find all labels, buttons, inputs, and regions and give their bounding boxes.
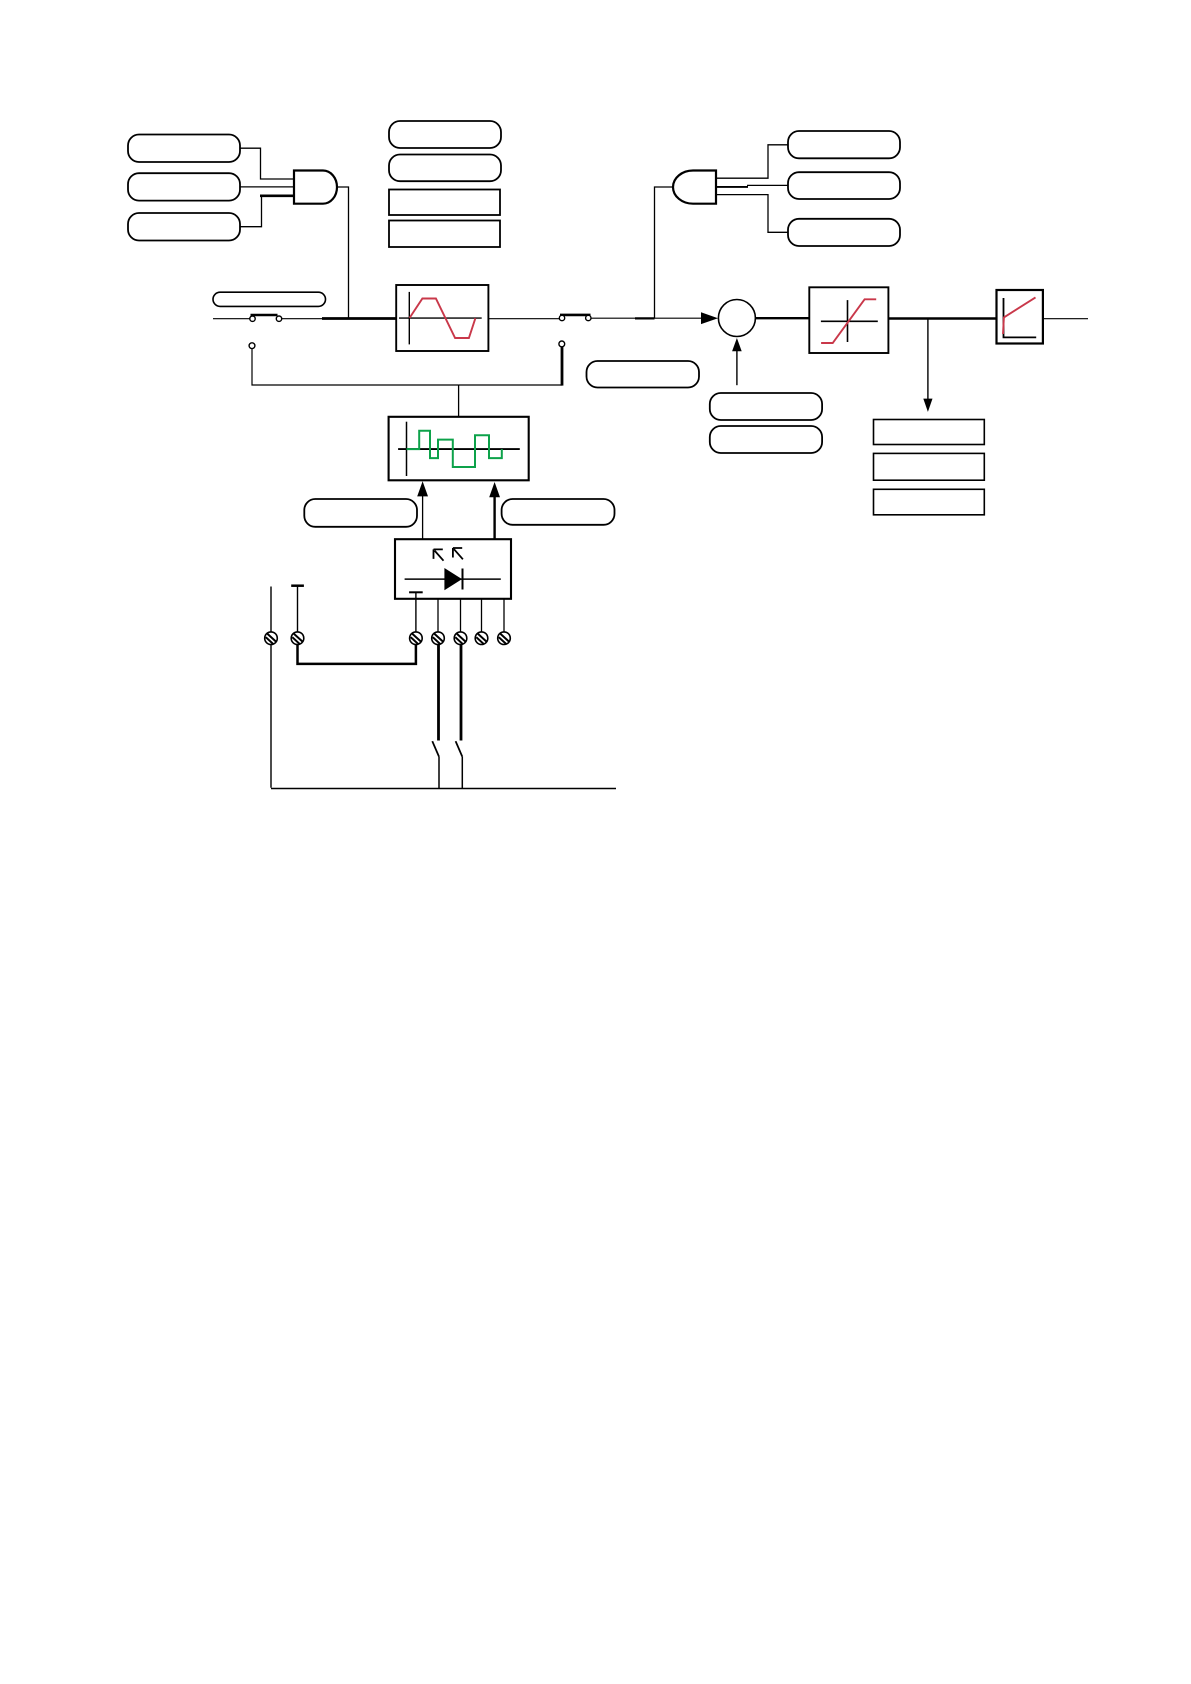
wire U2 output down to main line — [655, 187, 674, 319]
firing wire right (thick) up into PWM block — [493, 497, 495, 540]
supply lead above terminal X1 — [270, 587, 272, 632]
AND gate U1 — [294, 171, 337, 204]
arrowhead into summing junction — [701, 312, 718, 324]
callout pill P3 — [128, 213, 240, 241]
terminal X7 — [498, 632, 511, 645]
switch S1 blade (closed) — [251, 314, 278, 317]
G4 PWM square wave (green) — [407, 431, 502, 467]
bypass wire across-right — [459, 384, 562, 386]
diode D1 cathode bar — [462, 569, 464, 590]
main line segment left — [213, 318, 250, 320]
switch S2 right terminal — [586, 315, 591, 320]
wire U1 output down to main line — [337, 187, 349, 319]
firing arrowhead left — [417, 481, 428, 496]
switch S2 left terminal — [559, 315, 564, 320]
diode D1 anode line — [405, 578, 501, 580]
bypass riser (thick) to terminal T2 — [561, 347, 564, 386]
firing wire left (thin) up into PWM block — [422, 496, 424, 540]
wire X1 down to bottom bus — [270, 645, 272, 788]
parameter rectangle B3 — [874, 420, 985, 445]
wire U1 bottom input stub (thick) — [260, 195, 294, 198]
supply lead above terminal X2 — [297, 586, 299, 632]
G2 vertical axis — [847, 300, 849, 342]
sine shaper block G1 — [396, 285, 488, 351]
terminal X4 — [432, 632, 445, 645]
wire U2 top input from pill P6 — [716, 145, 788, 178]
callout pill P8 — [788, 219, 900, 246]
arrowhead up into summing junction — [732, 338, 742, 351]
main line segment after S2 — [591, 317, 701, 319]
pin 5 lead — [503, 599, 505, 632]
callout pill P12 — [710, 426, 822, 453]
PWM waveform block G4 — [389, 417, 529, 481]
AND gate U2 (mirrored) — [673, 171, 716, 204]
callout pill P6 (right top) — [788, 131, 900, 158]
G2 limiter curve (red) — [821, 299, 876, 343]
G3 L-axes — [1004, 298, 1037, 337]
wire P2 to gate U1 middle input — [240, 186, 294, 188]
G4 horizontal axis — [398, 448, 520, 450]
branch arrowhead — [923, 399, 932, 412]
wire U2 bottom input from pill P8 — [716, 195, 788, 233]
supply T-cap above terminal X2 — [291, 584, 304, 587]
callout pill P14 (right of firing arrows) — [502, 499, 615, 525]
legend rectangle B2 — [389, 221, 500, 248]
switch S4 upper lead (thick) — [460, 645, 463, 741]
wire X2 to X3 (thick) — [298, 645, 416, 664]
callout pill P13 (left of firing arrows) — [304, 499, 417, 527]
main line thick sub-segment before junction — [635, 317, 655, 319]
terminal X5 — [454, 632, 467, 645]
thyristor converter block U3 — [395, 539, 511, 599]
wire P1 to gate U1 top input — [240, 148, 294, 179]
main line thick segment into sine shaper — [322, 317, 396, 320]
bypass terminal T2 (below S2) — [559, 341, 565, 347]
switch S3 lower lead — [438, 757, 440, 789]
output characteristic block G3 — [997, 290, 1043, 344]
switch S4 blade — [456, 741, 463, 757]
terminal X6 — [475, 632, 488, 645]
pin 4 lead — [481, 599, 483, 632]
G1 vertical axis — [408, 292, 410, 345]
terminal X1 — [265, 632, 278, 645]
switch S1 left terminal — [250, 316, 255, 321]
wire U2 middle input from pill P7 — [747, 184, 788, 186]
pin 1 lead — [415, 592, 417, 632]
wire U2 middle input stub — [716, 186, 748, 188]
switch S4 lower lead — [461, 757, 463, 789]
parameter rectangle B4 — [874, 453, 985, 480]
output wire right — [1043, 318, 1088, 320]
branch arrow down to parameter list — [927, 319, 929, 400]
main line segment after G1 — [488, 318, 559, 320]
diode D1 triangle — [444, 568, 462, 590]
callout pill P9 (flat, above left switch) — [213, 292, 326, 306]
gate terminal tick inside U3 — [409, 591, 423, 593]
callout pill P1 (top left) — [128, 135, 240, 163]
G1 trapezoidal sine curve (red) — [410, 299, 476, 339]
wire bypass to PWM block — [458, 385, 460, 417]
callout pill P10 (right of S2, below line) — [587, 361, 700, 388]
bypass terminal T1 (below S1) — [249, 343, 255, 349]
G3 gain curve (red) — [1003, 297, 1036, 334]
terminal X3 — [410, 632, 423, 645]
callout pill P7 — [788, 172, 900, 199]
switch S1 right terminal — [276, 316, 281, 321]
parameter rectangle B5 — [874, 489, 985, 515]
switch S3 upper lead (thick) — [437, 645, 440, 741]
limiter block G2 — [809, 287, 888, 353]
terminal X2 — [291, 632, 304, 645]
callout pill P2 — [128, 173, 240, 200]
summing junction N1 — [718, 300, 755, 337]
callout pill P4 (top middle) — [389, 121, 501, 148]
wire P3 to gate U1 bottom input — [240, 196, 262, 227]
G1 horizontal axis — [399, 317, 482, 319]
bottom bus wire — [271, 788, 616, 790]
pin 2 lead — [437, 599, 439, 632]
wire limiter to output block (thick) — [888, 317, 996, 320]
bypass wire down-across — [252, 349, 459, 385]
main line segment after S1 — [282, 318, 322, 320]
callout pill P5 — [389, 155, 501, 182]
wire summing junction to limiter (thick) — [755, 317, 809, 319]
firing arrow icon A1 — [434, 549, 444, 560]
arrow up into summing junction — [736, 351, 738, 386]
G4 vertical axis — [406, 422, 408, 476]
G2 horizontal axis — [821, 320, 878, 322]
firing arrowhead right — [489, 482, 500, 497]
switch S2 blade (closed) — [560, 314, 591, 317]
pin 3 lead — [460, 599, 462, 632]
legend rectangle B1 — [389, 190, 500, 216]
firing arrow icon A2 — [453, 548, 463, 559]
switch S3 blade — [432, 741, 439, 757]
callout pill P11 (below summing junction) — [710, 393, 822, 420]
